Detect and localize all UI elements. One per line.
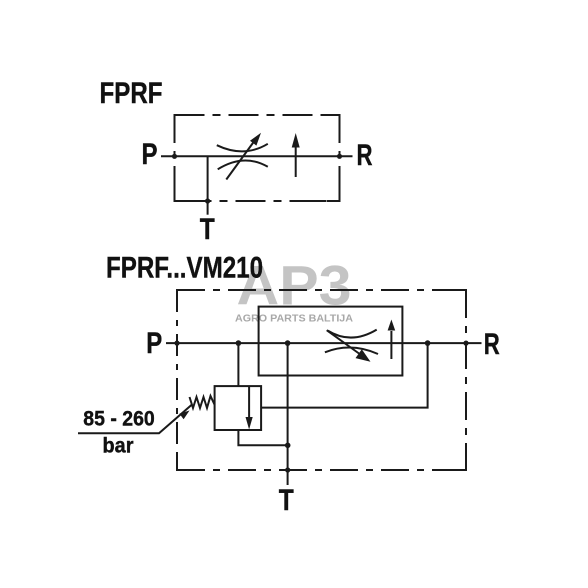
wire relief valve feed xyxy=(237,343,239,386)
svg-text:R: R xyxy=(357,139,373,172)
throttle (adjustable restrictor) arcs (bottom) xyxy=(325,330,378,354)
node P boundary junction (bottom) xyxy=(174,341,179,346)
junction T branch on P line xyxy=(285,340,291,346)
flow direction arrow (bottom, vertical) xyxy=(388,320,396,360)
node T boundary junction (bottom) xyxy=(285,467,290,472)
wire P-R line (bottom) xyxy=(166,342,482,344)
flow regulator body (inner rectangle) xyxy=(259,307,403,376)
adjustability arrow (bottom, diagonal) xyxy=(327,330,371,362)
wire T branch (bottom) xyxy=(287,343,289,485)
junction drain/T xyxy=(285,443,291,449)
wire T branch (top) xyxy=(207,156,209,214)
relief valve spring xyxy=(190,396,215,408)
junction relief-valve feed on P line xyxy=(236,340,242,346)
svg-text:R: R xyxy=(484,328,500,361)
svg-text:AGRO PARTS BALTIJA: AGRO PARTS BALTIJA xyxy=(235,314,354,325)
svg-text:FPRF...VM210: FPRF...VM210 xyxy=(106,252,263,285)
callout underline and leader arrow xyxy=(78,405,192,434)
svg-text:FPRF: FPRF xyxy=(100,77,163,110)
junction pilot line on P-R line xyxy=(425,340,431,346)
node P boundary junction (top) xyxy=(172,154,177,159)
relief valve flow arrow (down) xyxy=(246,386,253,429)
throttle (adjustable restrictor) arcs (top) xyxy=(217,144,268,170)
svg-text:bar: bar xyxy=(103,435,134,458)
svg-text:T: T xyxy=(200,213,215,246)
valve enclosure (top, dash-dot boundary) xyxy=(175,115,340,201)
node R boundary junction (bottom) xyxy=(463,341,468,346)
node R boundary junction (top) xyxy=(337,154,342,159)
relief valve body xyxy=(215,386,262,430)
svg-text:P: P xyxy=(142,138,158,171)
svg-text:P: P xyxy=(146,327,162,360)
svg-text:T: T xyxy=(279,484,294,517)
flow direction arrow (top, vertical) xyxy=(292,133,300,177)
wire P-R line (top) xyxy=(161,155,353,157)
node T boundary junction (top) xyxy=(205,198,210,203)
adjustability arrow (top, diagonal) xyxy=(226,133,261,180)
svg-text:85 - 260: 85 - 260 xyxy=(83,408,155,431)
valve enclosure (bottom, dash-dot boundary) xyxy=(177,290,466,470)
wire relief drain to T xyxy=(238,430,287,445)
wire pilot line (relief to R side) xyxy=(261,343,428,408)
